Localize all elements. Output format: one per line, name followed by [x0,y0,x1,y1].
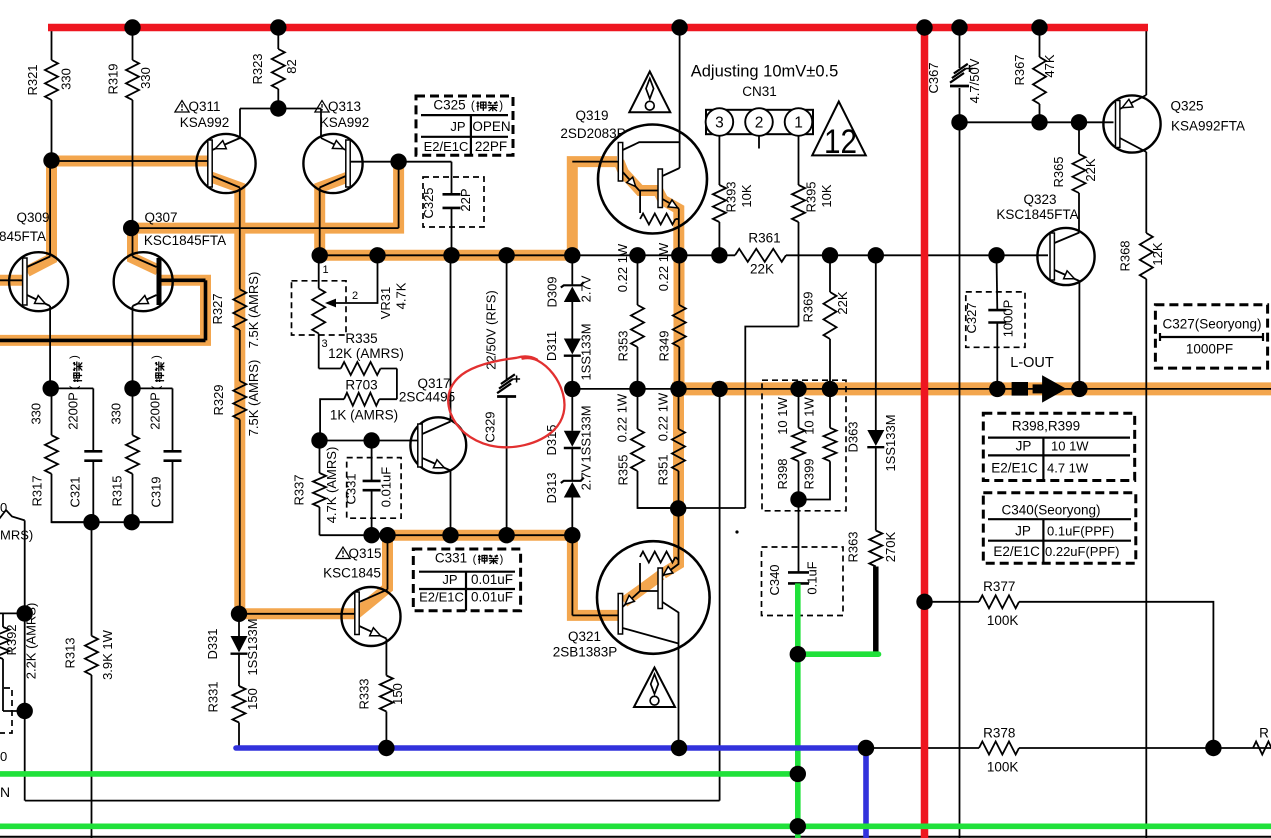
svg-text:R337: R337 [291,474,306,505]
wire: emitter degeneration node Q307 [124,380,140,396]
svg-text:R393: R393 [724,181,739,212]
svg-text:R363: R363 [846,531,861,562]
svg-text:KSA992: KSA992 [320,115,370,130]
capacitor C327 1000P [996,255,999,310]
junction dots on power rail [124,19,140,35]
svg-text:R353: R353 [616,330,631,361]
dashed box around R398 R399 [762,380,846,511]
wire: Q311 Q313 emitters to R323 [240,108,321,110]
resistor R315 330 [132,388,134,435]
wire: Q325 base line [960,121,1114,123]
svg-text:JP: JP [442,572,457,587]
svg-text:R331: R331 [205,681,220,712]
resistor R337 4.7K [319,441,321,474]
svg-text:): ) [151,355,163,359]
wire: left edge feedback network [0,510,25,523]
svg-text:R321: R321 [25,64,40,95]
capacitor C367 4.7/50V electrolytic [959,28,961,69]
svg-text:2200P: 2200P [66,392,81,430]
svg-text:C331: C331 [435,551,467,566]
svg-text:R367: R367 [1012,54,1027,85]
svg-text:0.22uF(PPF): 0.22uF(PPF) [1045,544,1119,559]
wire orange highlight: Q319 internal emitter path [619,162,679,256]
wire: bottom black border [0,836,1271,838]
resistor R361 22K [735,249,786,262]
wire: R327 R329 chain Q311 collector to D331 [239,188,241,290]
svg-text:): ) [499,101,503,113]
svg-text:0.01uF: 0.01uF [471,590,513,605]
resistor R329 7.5K [233,381,246,420]
junction dots on green lines [790,646,806,662]
svg-text:1SS133M: 1SS133M [245,618,260,675]
svg-text:R315: R315 [109,475,124,506]
svg-text:47K: 47K [1042,54,1057,77]
svg-text:OPEN: OPEN [472,119,510,134]
svg-text:2.7V: 2.7V [579,463,594,490]
svg-text:Q311: Q311 [188,99,220,114]
svg-text:2.7V: 2.7V [579,275,594,302]
wire orange highlight: rail up to Q319 base [572,162,617,256]
transistor Q325 KSA992FTA (PNP) [1103,95,1160,152]
svg-text:R395: R395 [804,181,819,212]
wire: common emitter node to R313 [52,521,173,523]
svg-text:R333: R333 [357,678,372,709]
svg-text:10 1W: 10 1W [802,396,817,434]
svg-text:JP: JP [1015,524,1031,539]
svg-text:22K: 22K [835,291,850,314]
svg-text:(: ( [471,101,475,113]
capacitor C329 22/50V electrolytic [506,255,508,381]
power line red vertical [921,24,929,838]
svg-text:JP: JP [1016,439,1032,454]
svg-text:R319: R319 [106,63,121,94]
svg-text:KSC1845FTA: KSC1845FTA [144,233,226,248]
svg-text:R703: R703 [345,378,377,393]
svg-text:R377: R377 [983,579,1015,594]
svg-text:1K (AMRS): 1K (AMRS) [330,408,398,423]
diode D309 zener 2.7V [571,255,573,286]
wire orange highlight: Q321 base to bias rail bottom [572,531,621,615]
junction dot R377 R378 corner [1205,740,1221,756]
wire: R321 branch from V+ rail [51,28,53,61]
diode D363 1SS133M [875,255,877,430]
svg-text:D309: D309 [545,276,560,307]
svg-text:N: N [0,784,10,800]
svg-text:C329: C329 [483,411,498,442]
resistor R363 270K [869,531,882,567]
resistor R399 10 1W [829,389,831,428]
svg-text:Q309: Q309 [16,210,49,225]
svg-text:C325: C325 [421,187,436,218]
svg-text:): ) [500,554,504,566]
diode D311 1SS133M [564,339,581,355]
svg-text:2SC4495: 2SC4495 [399,390,455,405]
svg-text:(: ( [69,385,81,389]
svg-text:D315: D315 [544,424,559,455]
resistor R317 330 [51,388,53,435]
capacitor C331 0.01uF [371,441,373,481]
svg-text:Q321: Q321 [568,629,601,644]
resistor R313 3.9K 1W [91,522,93,636]
wire orange highlight: Q321 emitter path into darlington [663,504,679,574]
wire: emitter degeneration node Q309 [43,380,59,396]
wire: diode chain midpoint to output line [564,381,580,397]
blue line vertical [863,748,869,838]
svg-text:12K (AMRS): 12K (AMRS) [328,346,404,361]
wire orange highlight: bias rail y=255 [314,250,577,261]
numbered triangle 12 [812,102,866,156]
svg-text:1SS133M: 1SS133M [883,414,898,471]
svg-text:0.01uF: 0.01uF [379,467,394,508]
svg-text:330: 330 [28,403,43,425]
svg-text:0.22 1W: 0.22 1W [656,242,671,291]
transistor Q313 KSA992 (PNP) [303,134,362,193]
svg-text:D311: D311 [544,331,559,361]
wire orange highlight: Q311 collector down through R327 R329 to D331 node [211,177,240,614]
resistor R353 0.22 1W [637,255,639,305]
resistor R367 47K [1039,28,1041,58]
wire orange highlight: feedback line Q307 collector to Q313 base [131,157,398,228]
junction dots on blue line [378,740,394,756]
svg-text:C327: C327 [964,302,979,333]
svg-text:1000PF: 1000PF [1186,342,1233,357]
diode D315 1SS133M [571,389,573,431]
svg-text:10 1W: 10 1W [1051,439,1089,454]
svg-text:150: 150 [390,683,405,705]
wire: bias rail y=255 left of R361 [319,254,735,256]
svg-text:2: 2 [755,114,764,131]
svg-text:D363: D363 [846,421,861,452]
svg-text:2: 2 [352,290,358,302]
svg-text:R355: R355 [616,454,631,485]
wire: N feedback line along bottom [25,800,720,802]
svg-text:4.7/50V: 4.7/50V [967,58,982,103]
resistor partial at right edge [1253,742,1271,755]
svg-text:100K: 100K [987,613,1019,628]
wire orange highlight: R349 R351 emitter resistors vertical [674,250,685,393]
svg-text:330: 330 [59,68,74,90]
svg-text:E2/E1C: E2/E1C [424,139,469,154]
svg-text:22K: 22K [750,262,774,277]
svg-text:C340(Seoryong): C340(Seoryong) [1001,503,1100,518]
svg-text:C325: C325 [433,98,465,113]
resistor R319 330 [126,60,139,100]
green line vertical [795,583,801,838]
svg-text:4.7K (AMRS): 4.7K (AMRS) [324,447,339,524]
green line short horizontal to R363 [798,651,879,657]
svg-text:KSA992: KSA992 [180,115,230,130]
svg-text:C331: C331 [344,473,359,504]
svg-text:Q307: Q307 [144,210,177,225]
svg-text:(: ( [151,385,163,389]
resistor R321 330 [45,60,58,100]
svg-text:4.7 1W: 4.7 1W [1047,461,1089,476]
svg-text:2200P: 2200P [148,392,163,430]
svg-text:1SS133M: 1SS133M [579,323,594,380]
dashed box fragment at left edge [0,688,12,733]
svg-text:R398: R398 [775,458,790,489]
svg-text:0.1uF(PPF): 0.1uF(PPF) [1047,524,1114,539]
svg-text:150: 150 [245,688,260,710]
resistor R703 1K [379,398,397,400]
svg-text:C321: C321 [68,476,83,507]
svg-text:L-OUT: L-OUT [1010,355,1054,371]
svg-text:22/50V (RFS): 22/50V (RFS) [483,290,498,369]
svg-text:0: 0 [0,749,7,764]
svg-text:R378: R378 [983,726,1015,741]
svg-text:0.22 1W: 0.22 1W [656,392,671,441]
svg-text:10 1W: 10 1W [775,396,790,434]
transistor Q311 KSA992 (PNP) [196,134,255,193]
wire: Q313 base node to C325 and feedback line [399,161,452,163]
table note C340 Seoryong jumper options [983,493,1136,563]
resistor R378 100K [866,747,979,749]
resistor R351 0.22 1W [678,389,680,429]
svg-text:C327(Seoryong): C327(Seoryong) [1162,317,1261,332]
svg-text:3: 3 [321,338,327,350]
warning triangle above Q319 [629,72,670,113]
svg-text:D331: D331 [205,628,220,659]
wire: R363 thick lead to green net [873,567,879,654]
svg-text:R335: R335 [345,331,377,346]
svg-text:KSC1845FTA: KSC1845FTA [0,229,46,244]
svg-text:330: 330 [138,67,153,89]
transistor Q321 2SB1383P darlington (PNP) [597,541,710,654]
wire orange highlight: Q309 base lead [0,275,23,286]
table note R398 R399 jumper options [983,413,1134,480]
svg-text:E2/E1C: E2/E1C [993,544,1040,559]
resistor R327 7.5K [233,289,246,330]
svg-text:2.2K (AMRS): 2.2K (AMRS) [23,603,38,680]
stray ink mark [735,530,738,533]
resistor R369 22K [829,255,831,292]
svg-text:R329: R329 [211,384,226,415]
diode D331 1SS133M [238,614,240,636]
svg-text:1SS133M: 1SS133M [579,405,594,462]
resistor R395 10K [798,136,800,185]
blue line negative rail [236,745,866,751]
svg-text:KSC1845FTA: KSC1845FTA [996,207,1078,222]
svg-text:R323: R323 [250,53,265,84]
wire orange highlight: R321 node to Q311 base and down to Q309 collector [27,161,208,272]
transistor Q309 KSC1845FTA (NPN) [9,252,68,311]
svg-text:KSC1845: KSC1845 [323,566,381,581]
svg-text:0.01uF: 0.01uF [471,572,513,587]
svg-text:Q323: Q323 [1023,192,1056,207]
table note C325 jumper options [416,96,513,155]
svg-text:1: 1 [322,264,328,276]
svg-text:82: 82 [284,59,299,73]
wire: Q313 collector to bias rail [319,188,321,256]
svg-text:7.5K (AMRS): 7.5K (AMRS) [246,360,261,437]
svg-text:): ) [69,355,81,359]
svg-text:330: 330 [109,403,124,425]
wire: R319 branch from V+ rail to Q307 collector node [132,28,134,61]
transistor Q317 2SC4495 (NPN) [410,417,466,473]
capacitor C340 0.1uF [788,571,809,574]
svg-text:22PF: 22PF [475,139,507,154]
hand-drawn red circle annotation around C329 [448,357,564,448]
svg-text:Q315: Q315 [348,546,381,561]
svg-text:R399: R399 [802,458,817,489]
svg-text:R327: R327 [210,293,225,324]
resistor R377 100K [925,601,980,603]
svg-text:R313: R313 [63,637,78,668]
wire: Q307 base thick loop to left edge [204,280,208,340]
wire: output line black [572,388,1271,390]
green line horizontal bottom [0,823,1271,829]
svg-text:Q319: Q319 [575,108,608,123]
transistor Q307 KSC1845FTA (NPN) [114,252,173,311]
wire orange highlight: output line L-OUT [672,382,1271,395]
svg-text:1: 1 [794,114,803,131]
resistor R349 0.22 1W [678,255,680,305]
wire orange highlight: Q313 collector to bias rail [320,177,348,255]
svg-text:R317: R317 [30,475,45,506]
svg-text:Adjusting 10mV±0.5: Adjusting 10mV±0.5 [691,63,839,81]
resistor R365 22K [1078,122,1080,154]
table note C327 Seoryong [1155,305,1267,368]
svg-text:100K: 100K [987,760,1019,775]
capacitor C319 2200P [172,388,174,451]
svg-text:2SD2083P: 2SD2083P [560,126,625,141]
wire orange highlight: D331 node to Q315 base, through Q315 to bias rail [234,608,356,619]
table note C331 jumper options [413,549,520,611]
green line horizontal upper [0,771,798,777]
svg-text:10K: 10K [819,184,834,207]
svg-text:22K: 22K [1083,158,1098,181]
svg-text:12K: 12K [1150,242,1165,265]
power rail V+ red [48,24,1148,32]
wire: R335 to R703 right side [396,369,398,400]
wire: C367 line down the page [959,88,961,838]
svg-text:JP: JP [450,119,465,134]
svg-text:D313: D313 [544,472,559,503]
svg-text:7.5K (AMRS): 7.5K (AMRS) [246,272,261,349]
wire: lower bias rail y=535 [320,534,573,536]
wire orange highlight: Q307 collector vertical [133,228,159,270]
svg-text:12: 12 [824,123,857,161]
resistor R333 150 [380,676,393,712]
wire: CN31 pin2 stub [758,136,760,149]
svg-text:R351: R351 [656,454,671,485]
transistor Q315 KSC1845 (NPN) [342,587,401,646]
svg-text:0: 0 [0,500,7,515]
svg-text:E2/E1C: E2/E1C [419,590,464,605]
resistor R398 10 1W [798,389,800,428]
resistor R323 82 [272,49,285,89]
svg-text:2SB1383P: 2SB1383P [553,645,618,660]
junction dot R377 on red line [916,594,932,610]
svg-text:KSA992FTA: KSA992FTA [1171,119,1245,134]
wire orange highlight: lower bias rail y=535 [382,530,577,541]
svg-text:R365: R365 [1051,156,1066,187]
svg-text:C340: C340 [767,564,782,595]
transistor Q323 KSC1845FTA (NPN) [1037,228,1094,285]
resistor R335 12K [319,368,341,370]
wire: Q317 base line [320,440,418,442]
svg-text:0.1uF: 0.1uF [804,561,819,594]
svg-text:E2/E1C: E2/E1C [991,461,1038,476]
svg-text:VR31: VR31 [378,287,393,320]
svg-text:R: R [1259,726,1269,741]
svg-text:270K: 270K [883,531,898,562]
svg-text:R349: R349 [657,330,672,361]
svg-text:R369: R369 [801,291,816,322]
svg-text:1000P: 1000P [1001,300,1016,338]
svg-text:3.9K 1W: 3.9K 1W [100,629,115,680]
svg-text:22P: 22P [458,188,473,211]
transistor Q319 2SD2083 darlington (NPN) [598,125,707,234]
svg-text:R368: R368 [1118,240,1133,271]
svg-text:R398,R399: R398,R399 [1012,419,1080,434]
resistor R393 10K [718,136,720,185]
svg-text:3: 3 [715,114,724,131]
wire: Q323 base line right of R361 [786,254,1048,256]
svg-text:R361: R361 [748,231,780,246]
resistor R392 2.2K (partial at edge) [2,613,4,627]
resistor R368 12K [1145,232,1147,234]
svg-text:Q313: Q313 [328,99,361,114]
svg-text:10K: 10K [739,184,754,207]
wire: Q321 emitter node [670,500,686,516]
svg-text:4.7K: 4.7K [394,282,409,309]
warning triangle below Q321 [634,668,675,708]
resistor R355 0.22 1W [637,389,639,429]
svg-text:CN31: CN31 [742,84,777,99]
svg-text:R392: R392 [4,624,19,655]
svg-text:0.22 1W: 0.22 1W [615,243,630,292]
resistor R331 150 [233,686,246,723]
wire orange highlight: Q307 base thick loop [0,280,206,340]
capacitor C325 22P [451,162,453,195]
svg-text:(: ( [473,554,477,566]
svg-text:0.22 1W: 0.22 1W [615,393,630,442]
wire: R323 branch from V+ rail [277,28,279,50]
wire: bootstrap from R395 to Q321 emitter node [745,327,798,509]
svg-text:Q325: Q325 [1170,99,1203,114]
svg-text:C319: C319 [149,476,164,507]
diode D313 zener 2.7V [564,482,581,498]
capacitor C321 2200P [92,388,94,451]
potentiometer VR31 4.7K [318,255,320,288]
svg-text:MRS): MRS) [0,528,33,543]
